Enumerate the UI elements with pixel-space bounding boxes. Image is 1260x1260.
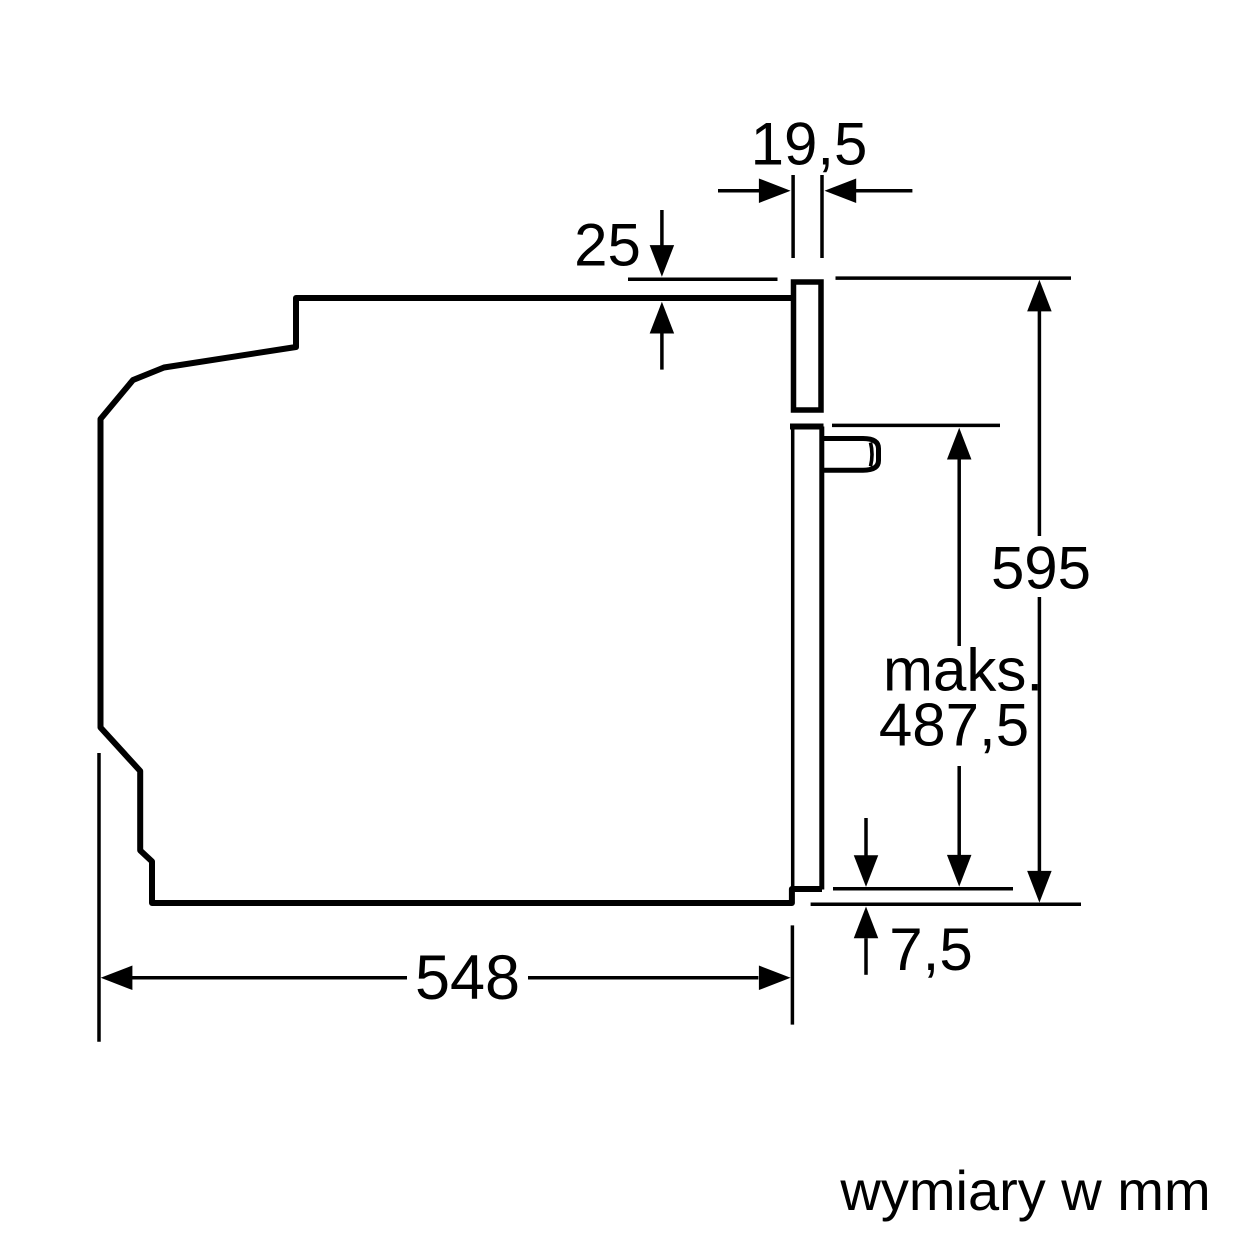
knob (door handle) <box>822 439 879 471</box>
svg-text:wymiary w mm: wymiary w mm <box>839 1159 1210 1222</box>
dim 19,5 right extension line <box>820 175 824 258</box>
svg-text:7,5: 7,5 <box>889 916 972 983</box>
svg-text:25: 25 <box>574 211 641 278</box>
panel notch lower bar <box>790 424 824 430</box>
dim 25 up arrow stem <box>660 334 664 370</box>
dim 25 down arrow stem <box>660 210 664 246</box>
panel right thick edge <box>819 427 824 890</box>
dim 548 right line segment <box>528 976 758 980</box>
dim maks bottom arrowhead <box>947 855 972 887</box>
panel left thin edge <box>791 429 795 887</box>
dim 25 extension line <box>628 278 778 282</box>
dim 595 lower stem <box>1038 597 1042 875</box>
dim 19,5 left extension line <box>791 175 795 258</box>
svg-text:487,5: 487,5 <box>879 692 1029 759</box>
dim 548 left arrowhead <box>101 966 133 991</box>
oven front panel upper rectangle <box>794 282 822 410</box>
dim 25 up arrowhead <box>650 302 675 334</box>
dim 7,5 down arrowhead <box>854 855 879 887</box>
dim 19,5 right arrowhead <box>825 178 857 203</box>
svg-text:19,5: 19,5 <box>751 111 868 178</box>
dim 548 right arrowhead <box>759 966 791 991</box>
dim 548 left extension line <box>97 753 101 1042</box>
dim maks lower stem <box>957 766 961 858</box>
dim 548 right extension line <box>791 925 795 1024</box>
dim 548 left line segment <box>132 976 407 980</box>
dim 7,5 up arrow stem <box>864 938 868 975</box>
knob inner ellipse edge <box>871 443 873 467</box>
dim 19,5 left arrow line <box>718 189 760 193</box>
dim maks 487,5 top extension line <box>832 424 1000 428</box>
dim 19,5 left arrowhead <box>759 178 791 203</box>
dim maks upper stem <box>957 455 961 646</box>
oven body outline <box>101 298 823 903</box>
svg-text:595: 595 <box>991 535 1091 602</box>
dim maks 487,5 bottom extension line <box>833 887 1013 891</box>
dim 595 bottom extension line <box>811 903 1081 907</box>
dim maks top arrowhead <box>947 428 972 460</box>
dim 7,5 up arrowhead <box>854 907 879 939</box>
dim 595 bottom arrowhead <box>1027 871 1052 903</box>
dim 25 down arrowhead <box>650 245 675 277</box>
dim 595 top arrowhead <box>1027 280 1052 312</box>
dim 595 upper stem <box>1038 305 1042 536</box>
dim 19,5 right arrow line <box>856 189 912 193</box>
dim 595 top extension line <box>836 276 1072 280</box>
svg-text:548: 548 <box>415 943 520 1013</box>
dim 7,5 down arrow stem <box>864 818 868 856</box>
